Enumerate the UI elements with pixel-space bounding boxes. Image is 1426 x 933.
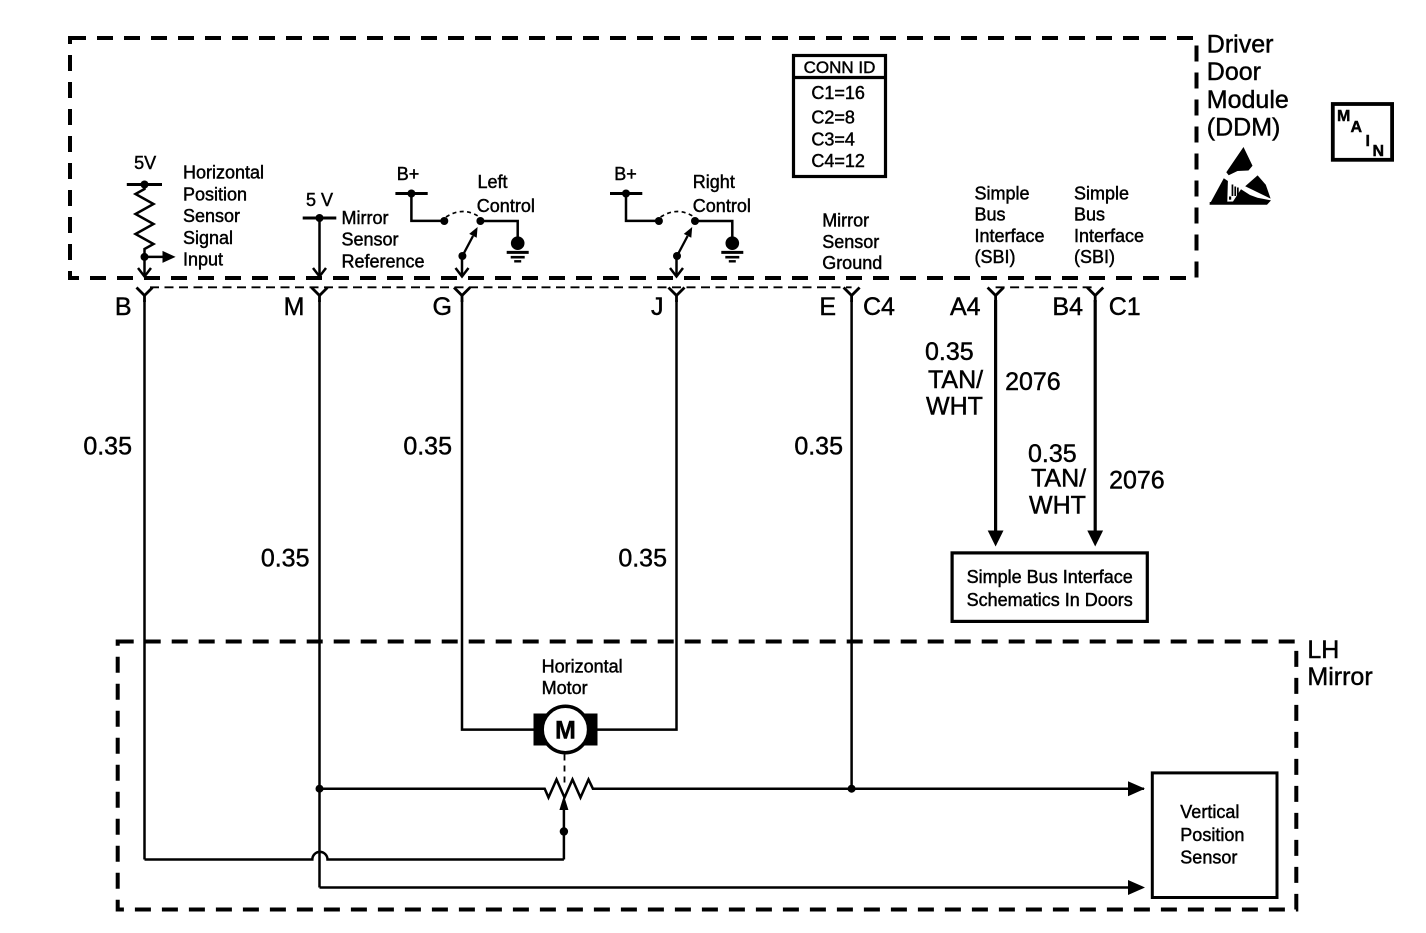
resistor (horizontal position sensor pull-up) bbox=[136, 185, 154, 257]
svg-text:M: M bbox=[555, 717, 576, 745]
svg-text:0.35: 0.35 bbox=[925, 338, 974, 366]
svg-text:0.35: 0.35 bbox=[261, 544, 310, 572]
wire: M bottom run to vertical position sensor with arrow bbox=[320, 880, 1146, 895]
wire: pin B run to wiper with hop over M wire bbox=[145, 852, 564, 860]
svg-text:C3=4: C3=4 bbox=[811, 129, 855, 149]
svg-text:Simple: Simple bbox=[975, 184, 1030, 204]
svg-text:B+: B+ bbox=[397, 164, 420, 184]
svg-text:C1=16: C1=16 bbox=[811, 83, 865, 103]
svg-text:Horizontal: Horizontal bbox=[542, 656, 623, 676]
svg-text:Driver: Driver bbox=[1207, 31, 1274, 59]
wire: pin E down to potentiometer wire junction bbox=[850, 300, 853, 789]
wire: right control to ground bbox=[695, 221, 732, 237]
svg-text:TAN/: TAN/ bbox=[1031, 465, 1086, 493]
svg-text:A: A bbox=[1351, 119, 1363, 136]
wire: resistor to pin B with arrow into connector bbox=[138, 257, 151, 277]
label Mirror Sensor Ground bbox=[822, 211, 882, 273]
svg-text:Control: Control bbox=[477, 196, 535, 216]
label Horizontal Position Sensor Signal Input bbox=[183, 163, 264, 270]
Simple Bus Interface Schematics In Doors box bbox=[952, 553, 1147, 622]
pin B4 connector bbox=[1087, 288, 1103, 303]
svg-text:N: N bbox=[1373, 143, 1385, 160]
ground (right control) bbox=[721, 236, 743, 261]
LH Mirror dashed enclosure bbox=[118, 642, 1297, 910]
svg-text:2076: 2076 bbox=[1109, 467, 1165, 495]
label Mirror Sensor Reference bbox=[342, 208, 425, 271]
svg-text:Sensor: Sensor bbox=[342, 230, 399, 250]
junction dot E wire to sensor wire bbox=[848, 785, 856, 793]
svg-text:(SBI): (SBI) bbox=[975, 247, 1016, 267]
svg-text:Interface: Interface bbox=[975, 226, 1045, 246]
pin M connector bbox=[312, 288, 328, 303]
svg-text:Mirror: Mirror bbox=[822, 211, 869, 231]
svg-text:WHT: WHT bbox=[1029, 491, 1086, 519]
connector boundary dashed line left group bbox=[150, 286, 852, 288]
svg-text:C1: C1 bbox=[1109, 293, 1141, 321]
pin A4 connector bbox=[988, 288, 1004, 303]
label Simple Bus Interface (SBI) first bbox=[975, 184, 1045, 267]
B+ supply (right control) bbox=[610, 164, 659, 221]
svg-text:Mirror: Mirror bbox=[1307, 663, 1372, 691]
svg-text:LH: LH bbox=[1307, 636, 1339, 664]
wire: left control to pin G with arrow into connector bbox=[456, 256, 469, 277]
label Driver Door Module (DDM) bbox=[1207, 31, 1289, 142]
svg-text:Sensor: Sensor bbox=[183, 206, 240, 226]
switch right control bbox=[655, 211, 699, 260]
label Left Control bbox=[477, 172, 535, 216]
svg-text:Position: Position bbox=[1180, 825, 1244, 845]
svg-text:C4=12: C4=12 bbox=[811, 151, 865, 171]
svg-text:(SBI): (SBI) bbox=[1074, 247, 1115, 267]
wire: 5 V to pin M with arrow into connector bbox=[313, 218, 326, 277]
svg-text:B+: B+ bbox=[614, 164, 637, 184]
potentiometer wiper arrow bbox=[559, 796, 568, 860]
svg-text:Position: Position bbox=[183, 184, 247, 204]
svg-text:B: B bbox=[115, 293, 132, 321]
svg-text:M: M bbox=[1337, 108, 1350, 125]
svg-text:Reference: Reference bbox=[342, 251, 425, 271]
5 V supply bar (mirror sensor reference) bbox=[303, 190, 337, 222]
svg-text:B4: B4 bbox=[1052, 293, 1083, 321]
wire: left control to ground bbox=[480, 221, 517, 237]
svg-text:Motor: Motor bbox=[542, 678, 588, 698]
CONN ID table bbox=[792, 56, 887, 177]
svg-text:Vertical: Vertical bbox=[1180, 802, 1239, 822]
svg-text:Module: Module bbox=[1207, 86, 1289, 114]
wire: right control to pin J with arrow into connector bbox=[670, 256, 683, 277]
svg-text:Bus: Bus bbox=[975, 205, 1006, 225]
pin G connector bbox=[454, 288, 470, 303]
wire: pin G down to motor left lead bbox=[462, 300, 534, 730]
label Horizontal Motor bbox=[542, 656, 623, 698]
MAIN reference box bbox=[1333, 104, 1392, 160]
svg-text:Bus: Bus bbox=[1074, 205, 1105, 225]
svg-text:Door: Door bbox=[1207, 58, 1261, 86]
svg-text:(DDM): (DDM) bbox=[1207, 114, 1281, 142]
Vertical Position Sensor box bbox=[1152, 773, 1277, 898]
svg-text:Mirror: Mirror bbox=[342, 208, 389, 228]
wire: pin B down to lower horizontal run bbox=[143, 300, 146, 860]
wire: pin J down to motor right lead bbox=[598, 300, 677, 730]
svg-text:5V: 5V bbox=[134, 153, 156, 173]
dashed mechanical link motor to potentiometer bbox=[564, 755, 566, 788]
svg-text:Signal: Signal bbox=[183, 228, 233, 248]
svg-text:0.35: 0.35 bbox=[794, 433, 843, 461]
connector boundary dashed line right group bbox=[996, 286, 1096, 288]
svg-text:5 V: 5 V bbox=[306, 190, 333, 210]
svg-text:Right: Right bbox=[693, 172, 735, 192]
svg-text:M: M bbox=[284, 293, 305, 321]
svg-text:G: G bbox=[433, 293, 452, 321]
wire: pin A4 SBI with arrow to box bbox=[988, 300, 1004, 547]
junction dot M wire to potentiometer bbox=[316, 785, 324, 793]
svg-text:TAN/: TAN/ bbox=[928, 366, 983, 394]
wire: pin B4 SBI with arrow to box bbox=[1087, 300, 1103, 547]
B+ supply (left control) bbox=[395, 164, 444, 221]
motor M1 horizontal motor bbox=[534, 706, 598, 752]
svg-text:J: J bbox=[651, 293, 664, 321]
svg-text:Input: Input bbox=[183, 250, 223, 270]
label Right Control bbox=[693, 172, 751, 216]
arrow into vertical position sensor (upper) bbox=[1128, 781, 1145, 796]
svg-text:E: E bbox=[819, 293, 836, 321]
pin B connector bbox=[137, 288, 153, 303]
ESD sensitivity symbol bbox=[1210, 147, 1272, 205]
wire label 0.35 TAN/WHT (B4) bbox=[1028, 440, 1086, 520]
svg-text:WHT: WHT bbox=[926, 393, 983, 421]
label Simple Bus Interface (SBI) second bbox=[1074, 184, 1144, 267]
5V supply bar (horizontal position sensor) bbox=[127, 153, 162, 189]
svg-text:0.35: 0.35 bbox=[403, 433, 452, 461]
wire: pin M down to potentiometer and bottom run bbox=[318, 300, 321, 888]
svg-text:Left: Left bbox=[478, 172, 508, 192]
svg-text:I: I bbox=[1366, 133, 1370, 150]
DDM module dashed enclosure bbox=[70, 38, 1197, 278]
svg-text:2076: 2076 bbox=[1005, 368, 1061, 396]
svg-text:Simple Bus Interface: Simple Bus Interface bbox=[967, 567, 1133, 587]
pin E connector bbox=[844, 288, 860, 303]
pin J connector bbox=[669, 288, 685, 303]
svg-text:Simple: Simple bbox=[1074, 184, 1129, 204]
svg-text:Interface: Interface bbox=[1074, 226, 1144, 246]
svg-text:Schematics In Doors: Schematics In Doors bbox=[967, 590, 1133, 610]
svg-text:C4: C4 bbox=[863, 293, 895, 321]
svg-text:CONN ID: CONN ID bbox=[804, 58, 876, 77]
ground (left control) bbox=[507, 236, 529, 261]
svg-text:Sensor: Sensor bbox=[822, 232, 879, 252]
wire label 0.35 TAN/WHT (A4) bbox=[925, 338, 983, 421]
switch left control bbox=[440, 211, 484, 260]
label LH Mirror bbox=[1307, 636, 1372, 691]
svg-text:0.35: 0.35 bbox=[618, 544, 667, 572]
svg-text:A4: A4 bbox=[950, 293, 981, 321]
svg-text:Sensor: Sensor bbox=[1180, 848, 1237, 868]
svg-text:C2=8: C2=8 bbox=[811, 108, 855, 128]
svg-text:Control: Control bbox=[693, 196, 751, 216]
svg-text:Ground: Ground bbox=[822, 253, 882, 273]
potentiometer (horizontal position sensor) bbox=[320, 780, 1145, 798]
svg-text:0.35: 0.35 bbox=[83, 433, 132, 461]
svg-text:Horizontal: Horizontal bbox=[183, 163, 264, 183]
signal tap arrow bbox=[141, 251, 176, 263]
